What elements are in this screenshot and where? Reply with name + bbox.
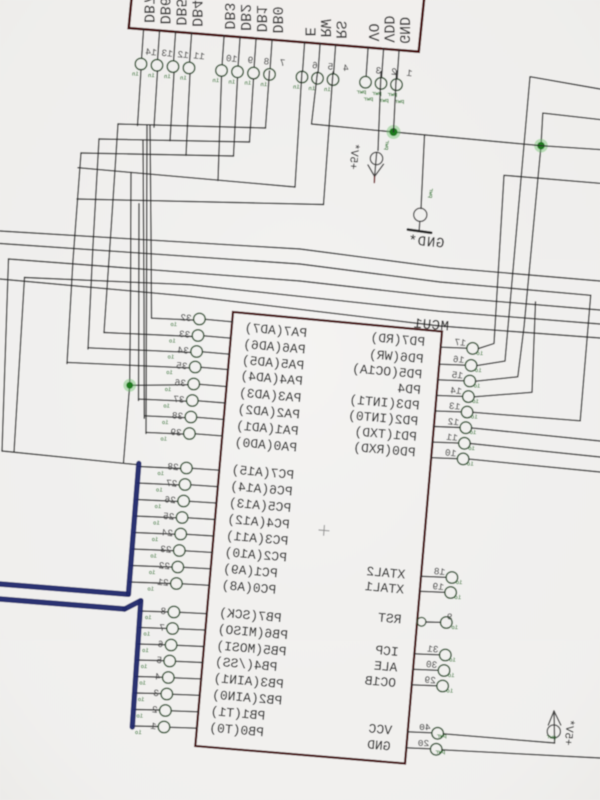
svg-text:ICP: ICP (374, 643, 399, 660)
svg-text:36: 36 (174, 377, 187, 389)
MCU pin 24 PC3(A11) (133, 533, 175, 535)
wire PD5 through junction C (476, 113, 600, 381)
MCU pin 3 PB2(AIN0) (135, 692, 161, 695)
svg-text:17: 17 (454, 337, 466, 349)
svg-text:10: 10 (225, 53, 238, 65)
staircase rung 2 (99, 139, 250, 142)
svg-text:+5V*: +5V* (561, 719, 575, 746)
staircase rung 3 (81, 153, 234, 156)
svg-text:pwr: pwr (383, 140, 391, 150)
junction B (387, 125, 401, 139)
svg-text:GND: GND (366, 737, 391, 754)
staircase rung 1 (118, 124, 266, 128)
MCU U1 box outline (195, 312, 442, 764)
svg-text:io: io (456, 579, 463, 586)
svg-text:14: 14 (449, 385, 462, 397)
svg-text:io: io (152, 536, 159, 543)
feed to PA2 row (143, 140, 144, 418)
LCD pin 5 RW (318, 43, 320, 72)
svg-text:io: io (446, 688, 453, 695)
MCU pin 36 PA3(AD3) (200, 384, 227, 386)
wire DB3 drop (218, 77, 222, 181)
wire DB7 drop (138, 70, 142, 126)
MCU pin 1 PB0(T0) (132, 725, 158, 728)
svg-text:io: io (475, 367, 482, 374)
LCD module LCD1 outline (bottom part, cut at top) (129, 0, 425, 52)
svg-text:io: io (454, 594, 461, 601)
wire PD4 short (474, 302, 535, 397)
svg-text:io: io (476, 350, 483, 357)
MCU pin 34 PA5(AD5) (88, 348, 191, 353)
LCD pin 13 DB6 (158, 30, 160, 59)
MCU pin 12 PD2(INT0) (434, 427, 460, 428)
svg-text:io: io (149, 569, 156, 576)
svg-text:io: io (467, 460, 474, 467)
LCD pin 12 DB5 (174, 32, 176, 61)
descender to PA4 row (67, 153, 81, 364)
svg-text:12: 12 (447, 416, 460, 428)
MCU pin 18 XTAL2 (421, 576, 446, 577)
svg-text:VO: VO (364, 23, 381, 41)
MCU pin 5 PB4(/SS) (137, 659, 164, 662)
MCU pin 35 PA4(AD4) (67, 362, 189, 368)
svg-text:39: 39 (169, 427, 182, 439)
svg-text:io: io (153, 520, 160, 527)
svg-text:29: 29 (424, 675, 437, 687)
GND supply symbol (414, 208, 427, 221)
svg-text:21: 21 (156, 577, 169, 589)
svg-text:io: io (472, 398, 479, 405)
svg-text:in: in (132, 71, 139, 78)
long wire L3 left descender (2, 259, 9, 451)
svg-text:io: io (470, 429, 477, 436)
MCU pin 33 PA6(AD6) (104, 333, 192, 337)
svg-text:15: 15 (451, 370, 464, 382)
svg-text:27: 27 (165, 478, 177, 490)
svg-text:28: 28 (166, 461, 179, 473)
svg-text:in: in (245, 80, 252, 87)
MCU pin 8 PB7(SCK) (140, 610, 168, 613)
wire GND to right edge (442, 750, 600, 758)
svg-text:io: io (448, 672, 455, 679)
svg-text:22: 22 (158, 560, 171, 572)
svg-text:+5V*: +5V* (346, 143, 360, 170)
wire PD7 up to right edge (478, 175, 600, 348)
MCU pin 30 ALE (413, 669, 438, 670)
MCU pin 22 PC1(A9) (131, 566, 172, 568)
MCU pin 23 PC2(A10) (132, 549, 174, 551)
wire DB5 drop (170, 73, 174, 141)
svg-text:11: 11 (445, 432, 458, 444)
MCU pin 4 PB3(AIN1) (136, 676, 163, 679)
LCD pin 3 VO (366, 47, 368, 76)
wire LCD GND pin down to junction B (394, 71, 397, 132)
svg-text:io: io (163, 403, 170, 410)
svg-text:pwr: pwr (364, 96, 374, 103)
svg-text:DB0: DB0 (268, 6, 285, 33)
feed junction A vertical (124, 173, 132, 463)
MCU pin 40 VCC (408, 732, 432, 733)
svg-text:23: 23 (159, 544, 172, 556)
svg-text:io: io (157, 470, 164, 477)
MCU pin 26 PC5(A13) (136, 500, 178, 502)
svg-text:io: io (166, 369, 173, 376)
svg-text:RW: RW (316, 19, 333, 37)
wire PD0 to right edge (469, 459, 600, 472)
svg-text:io: io (160, 436, 167, 443)
MCU pin 27 PC6(A14) (137, 483, 179, 485)
svg-text:7: 7 (159, 622, 166, 633)
svg-text:io: io (170, 321, 177, 328)
rung E (78, 168, 295, 187)
LCD pin 14 DB7 (142, 29, 144, 58)
svg-text:30: 30 (425, 659, 438, 671)
wire VCC to +5V supply (443, 734, 554, 743)
wire RS vertical (324, 72, 334, 205)
bus B1 horizontal from left edge (0, 584, 128, 594)
svg-text:RS: RS (332, 21, 349, 39)
svg-text:pwr: pwr (395, 98, 405, 105)
svg-text:io: io (139, 680, 146, 687)
feed to PA7 row (150, 125, 152, 318)
svg-text:DB1: DB1 (252, 5, 269, 32)
LCD pin 1 GND (397, 50, 399, 79)
svg-text:io: io (165, 386, 172, 393)
LCD pin 8 DB1 (254, 38, 256, 67)
wire E vertical (295, 71, 302, 187)
wire PD1 to right edge (470, 444, 600, 458)
MCU pin 14 PD4 (436, 395, 462, 396)
MCU pin 7 PB6(MISO) (139, 627, 167, 630)
MCU pin 13 PD3(INT1) (435, 411, 461, 412)
wire VDD pin into +5V symbol (378, 72, 381, 151)
svg-text:io: io (449, 657, 456, 664)
long wire L5 (0, 279, 600, 338)
svg-text:26: 26 (164, 494, 177, 506)
svg-text:13: 13 (161, 48, 174, 60)
svg-text:19: 19 (432, 581, 445, 593)
MCU pin 17 PD7(RD) (441, 347, 467, 348)
long wire L4 left descender (14, 278, 25, 453)
svg-text:in: in (309, 85, 316, 92)
feed to PA3 row (138, 204, 141, 401)
long wire L3 (9, 259, 600, 310)
svg-text:io: io (141, 663, 148, 670)
wire DB0 drop (266, 71, 270, 128)
long wire L2 (0, 244, 591, 296)
svg-text:in: in (213, 77, 220, 84)
svg-text:in: in (261, 81, 268, 88)
svg-text:in: in (180, 74, 187, 81)
MCU pin 37 PA2(AD2) (139, 399, 187, 401)
bus B2 vertical (132, 601, 141, 727)
svg-text:io: io (144, 631, 151, 638)
svg-text:in: in (324, 86, 331, 93)
svg-text:io: io (451, 624, 458, 631)
wire RW down to ground net (312, 72, 394, 132)
svg-text:9: 9 (447, 612, 453, 623)
svg-text:14: 14 (145, 47, 158, 59)
svg-text:GND: GND (395, 17, 412, 44)
MCU pin 39 PA0(AD0) (146, 432, 184, 434)
MCU pin 20 GND (406, 748, 430, 749)
rung RS (77, 199, 324, 205)
svg-text:ALE: ALE (373, 658, 398, 675)
svg-text:io: io (156, 487, 163, 494)
svg-text:io: io (168, 354, 175, 361)
MCU pin 31 ICP (414, 654, 439, 655)
svg-text:12: 12 (177, 49, 190, 61)
LCD pin 7 DB0 (270, 40, 272, 69)
svg-text:13: 13 (448, 401, 461, 413)
MCU pin 19 XTAL1 (420, 591, 445, 592)
svg-text:io: io (468, 445, 475, 452)
wire ground net to junction B then right edge (394, 132, 600, 150)
MCU pin 6 PB5(MOSI) (138, 643, 165, 646)
svg-text:RST: RST (377, 610, 402, 627)
svg-text:DB5: DB5 (172, 0, 189, 26)
wire DB1 drop (250, 79, 254, 142)
svg-text:io: io (136, 713, 143, 720)
svg-text:E: E (301, 27, 318, 36)
svg-text:11: 11 (193, 50, 206, 62)
wire DB4 drop (186, 74, 190, 155)
svg-text:io: io (138, 696, 145, 703)
svg-text:DB6: DB6 (156, 0, 173, 24)
svg-text:7: 7 (279, 57, 286, 68)
MCU pin 2 PB1(T1) (134, 709, 160, 712)
svg-text:io: io (474, 383, 481, 390)
svg-text:25: 25 (162, 511, 175, 523)
svg-text:io: io (162, 419, 169, 426)
svg-text:VDD: VDD (380, 16, 397, 43)
bus feed line (2, 451, 137, 465)
svg-text:DB3: DB3 (220, 3, 237, 30)
wire PD6 up to right edge (477, 77, 600, 366)
long wire L4 (25, 278, 600, 325)
svg-text:31: 31 (426, 644, 439, 656)
descender to PA6 row (104, 124, 118, 333)
svg-text:DB7: DB7 (140, 0, 157, 23)
svg-text:DB4: DB4 (188, 0, 205, 27)
feed to PA1 row (146, 125, 147, 434)
MCU pin 11 PD1(TXD) (432, 442, 458, 443)
descender to PA5 row (88, 139, 99, 349)
svg-text:35: 35 (175, 360, 188, 372)
MCU origin cross (319, 529, 329, 532)
bus B1 vertical (128, 464, 138, 595)
svg-text:in: in (229, 78, 236, 85)
svg-text:VCC: VCC (368, 721, 393, 738)
svg-text:pwr: pwr (546, 733, 556, 741)
svg-text:pwr: pwr (427, 188, 435, 198)
svg-text:MCU1: MCU1 (413, 316, 450, 335)
LCD pin 6 E (303, 42, 305, 71)
svg-text:33: 33 (178, 329, 191, 341)
LCD pin 2 VDD (382, 49, 384, 78)
svg-text:in: in (164, 73, 171, 80)
svg-text:io: io (155, 503, 162, 510)
svg-text:OC1B: OC1B (364, 673, 397, 691)
wire DB6 drop (154, 71, 158, 127)
svg-text:24: 24 (161, 527, 174, 539)
MCU pin 9 RST with inversion bubble (417, 617, 426, 626)
svg-text:io: io (145, 614, 152, 621)
LCD pin 10 DB3 (222, 36, 224, 65)
LCD pin 11 DB4 (190, 33, 192, 62)
MCU pin 25 PC4(A12) (135, 516, 177, 518)
junction A on PA3 row (130, 384, 188, 387)
MCU pin 21 PC0(A8) (129, 582, 170, 584)
svg-text:16: 16 (452, 354, 465, 366)
wire PD3 to L2 descender (473, 412, 580, 421)
+5V supply symbol (top, rotated) (370, 152, 382, 164)
svg-text:10: 10 (444, 447, 457, 459)
svg-text:32: 32 (179, 312, 192, 324)
svg-text:DB2: DB2 (236, 4, 253, 31)
MCU pin 16 PD6(WR) (439, 364, 465, 365)
svg-text:34: 34 (177, 345, 190, 357)
svg-text:GND*: GND* (407, 233, 445, 252)
MCU pin 32 PA7(AD7) (152, 318, 194, 320)
svg-text:PD4: PD4 (397, 381, 422, 398)
svg-text:io: io (147, 586, 154, 593)
MCU pin 29 OC1B (412, 685, 437, 686)
svg-text:37: 37 (173, 394, 185, 406)
wire DB2 drop (234, 78, 238, 156)
svg-text:pwr: pwr (357, 89, 367, 96)
svg-text:18: 18 (433, 566, 446, 578)
svg-text:in: in (293, 84, 300, 91)
svg-text:20: 20 (417, 738, 429, 749)
LCD pin 4 RS (334, 45, 336, 74)
svg-text:38: 38 (171, 410, 184, 422)
junction C (534, 139, 548, 153)
svg-text:io: io (135, 729, 142, 736)
svg-text:io: io (142, 647, 149, 654)
MCU pin 10 PD0(RXD) (431, 458, 457, 459)
stub from ground net down to GND symbol (421, 135, 425, 209)
svg-text:io: io (150, 553, 157, 560)
+5V supply symbol (bottom right) (553, 711, 556, 743)
bus B2 diagonal jog (125, 601, 141, 609)
svg-text:io: io (169, 338, 176, 345)
MCU pin 38 PA1(AD1) (144, 416, 185, 418)
MCU pin 15 PD5(OC1A) (438, 380, 464, 381)
svg-text:40: 40 (419, 722, 431, 733)
LCD pin 9 DB2 (238, 37, 240, 66)
MCU pin 28 PC7(A15) (139, 467, 181, 469)
long wire L2 descender to PD3 (580, 295, 591, 421)
bus B2 horizontal from left edge (0, 599, 125, 609)
long wire L1 (0, 231, 600, 281)
svg-text:io: io (471, 414, 478, 421)
svg-text:in: in (148, 72, 155, 79)
wire PD2 to right edge (472, 428, 600, 441)
